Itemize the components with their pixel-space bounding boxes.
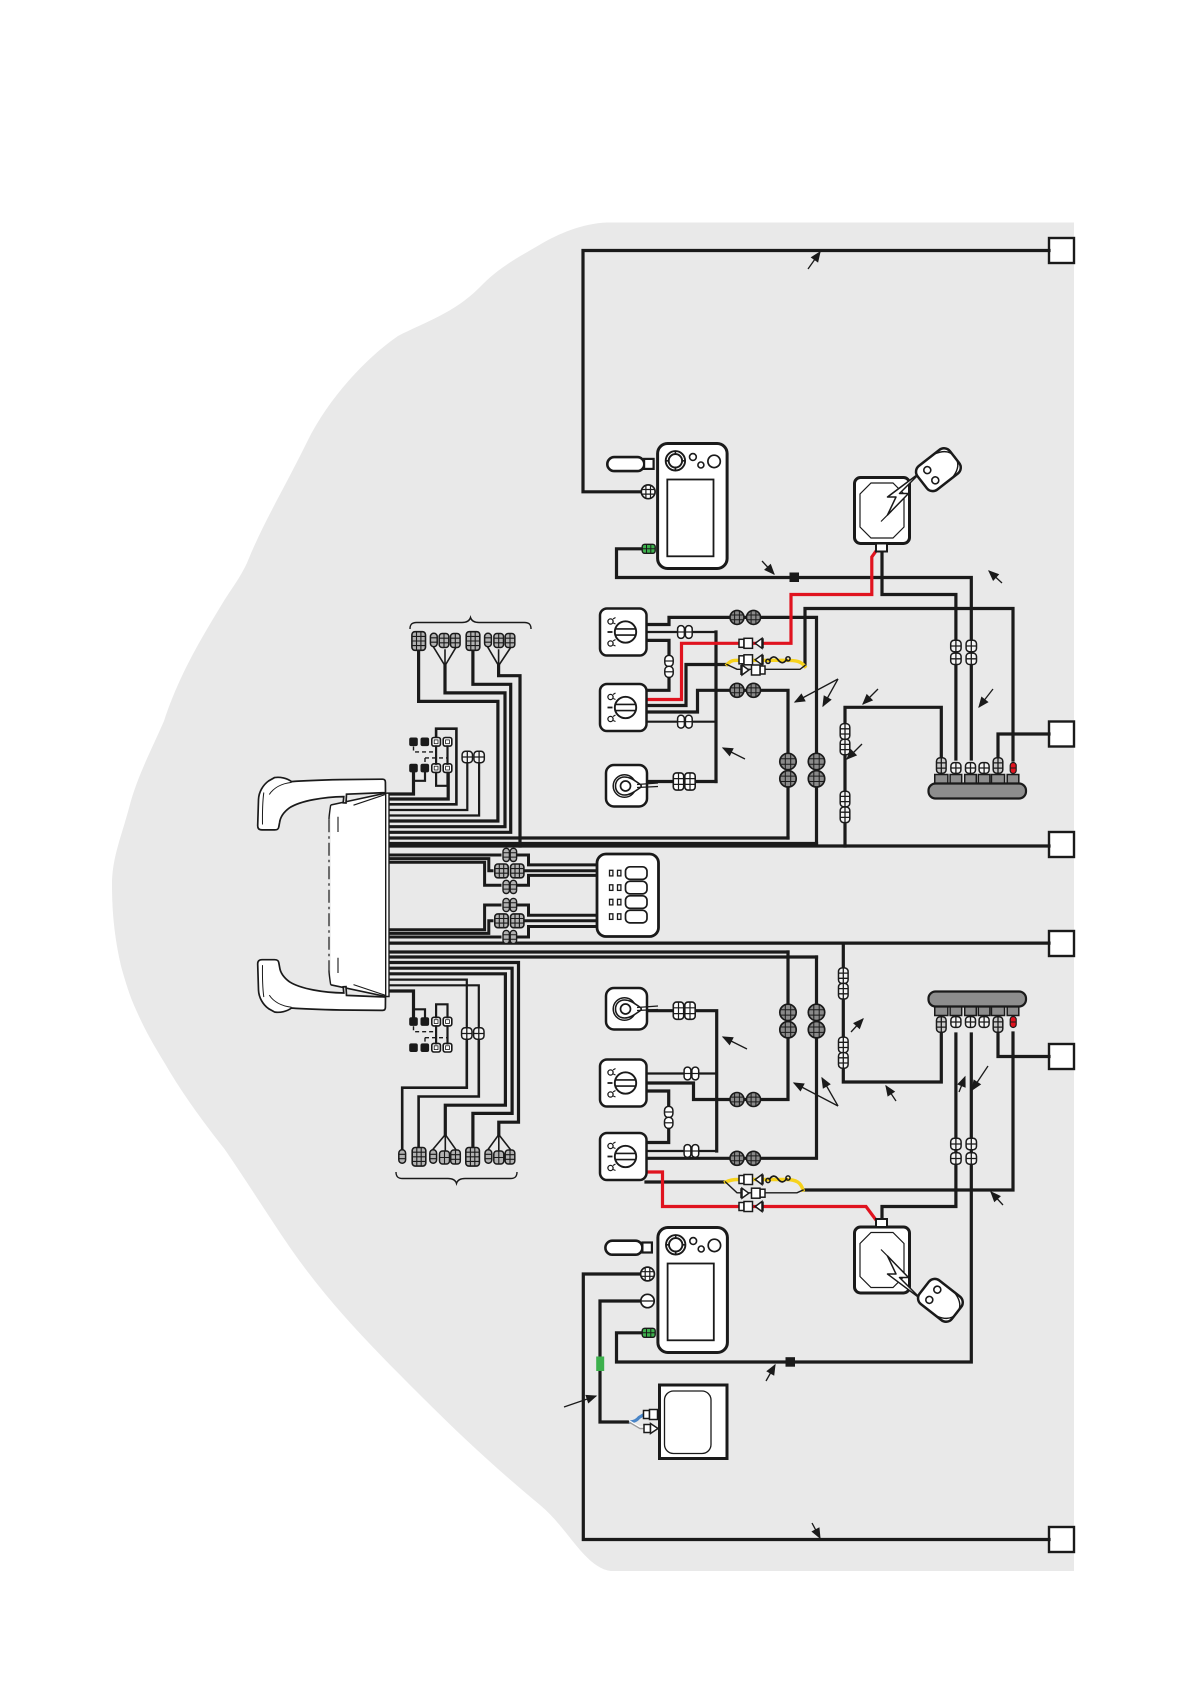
lower yellow fused link with fuse F4 and spare bbox=[726, 1180, 804, 1191]
leader arrow 20 bbox=[886, 1086, 896, 1101]
wire: switch S4 thin tap with pills to kill vertical bbox=[646, 1150, 717, 1152]
callout box 6 (bottom right) bbox=[1049, 1527, 1074, 1552]
trim coupler C1 grid connectors bbox=[495, 864, 508, 878]
leader arrow 6 bbox=[823, 679, 838, 706]
bullet connectors on S2 circuit bbox=[730, 683, 744, 697]
engine line B upper bbox=[389, 842, 817, 845]
fuse F1 (red circuit) bbox=[739, 638, 763, 648]
pill connectors on S4 thin wire bbox=[684, 1145, 691, 1158]
rocker switch 3 bbox=[626, 896, 648, 909]
leader arrow 5 bbox=[795, 679, 838, 702]
terminal block T2 bbox=[935, 1006, 948, 1016]
red positive wire: switch S4 to battery B2 with fuse F3 bbox=[646, 1172, 878, 1222]
cluster X1 solid frame wires bbox=[436, 747, 447, 786]
callout box 2 bbox=[1049, 722, 1074, 747]
pill connectors on S5-S4 link bbox=[665, 1106, 673, 1117]
callout box 4 bbox=[1049, 931, 1074, 956]
wire: gauge U1 green connector loop to terminal T1 tab3 bbox=[617, 549, 972, 759]
blue connector on sensor lead bbox=[629, 1415, 644, 1423]
ignition key switch S5 bbox=[600, 1060, 647, 1107]
T1 red pill connector bbox=[1010, 763, 1016, 774]
gauge U1 round power connector bbox=[641, 485, 655, 499]
wire: switch S2 to bullet connectors to engine line A bbox=[646, 690, 788, 838]
junction J2 on lower gauge loop bbox=[786, 1357, 796, 1367]
leader arrow 12 bbox=[564, 1396, 596, 1407]
charger plug P1 bbox=[913, 445, 964, 494]
engine line A upper bbox=[389, 836, 789, 839]
rocker switch 2 bbox=[626, 881, 648, 894]
wire: yellow loop junction to terminal T2 tab6 bbox=[803, 1033, 1013, 1190]
wire: battery B1 negative to terminal T1 tab2 bbox=[882, 549, 956, 759]
gauge U2 green network connector bbox=[642, 1328, 655, 1337]
wire: gauge U1 to callout box 1 bbox=[583, 251, 1049, 492]
ignition key switch S4 bbox=[600, 1133, 647, 1180]
engine stop lanyard switch S6 bbox=[606, 988, 647, 1030]
wire: terminal T2 tab1 down-left and up to engine line C bbox=[843, 943, 941, 1082]
battery B2 bbox=[855, 1227, 910, 1293]
leader arrow 11 bbox=[766, 1365, 775, 1381]
wire: kill-switch vertical riser bbox=[714, 632, 717, 782]
engine lower cascade wires to connector bank K2 bbox=[389, 963, 519, 1135]
trim coupler C2 grid connectors bbox=[495, 914, 508, 928]
pill connectors on S1 wire bbox=[678, 626, 685, 639]
wire: switch S5 thin tap to kill vertical bbox=[646, 1072, 717, 1074]
leader arrow 15 bbox=[822, 1078, 838, 1106]
bullet connectors on S1 circuit bbox=[730, 610, 744, 624]
bank K2 fan wires bbox=[433, 1135, 455, 1150]
trim coupler C2 capsule pair top bbox=[503, 898, 509, 911]
kill switch S6 connectors bbox=[673, 1002, 683, 1019]
callout box 5 bbox=[1049, 1044, 1074, 1069]
leader arrow 4 bbox=[723, 748, 745, 759]
hull outline (boat viewed from above) bbox=[112, 223, 1074, 1572]
fuse F3 (red circuit) bbox=[739, 1202, 763, 1212]
leader arrow 9 bbox=[847, 744, 862, 759]
red positive wire: battery B1 to switch S2 with fuse F1 bbox=[647, 549, 878, 700]
engine/transom unit body bbox=[329, 793, 389, 996]
wire: switch S1 circuit through bullet connectors to engine line B bbox=[646, 617, 817, 843]
bank K2 small grid bbox=[440, 1151, 450, 1164]
X2 pair capsule connectors bbox=[462, 1028, 472, 1039]
callout box 3 bbox=[1049, 832, 1074, 857]
T1 tab connectors bbox=[937, 758, 947, 774]
bank K2 medium grid 2 bbox=[505, 1150, 515, 1164]
bank K2 capsule 3 bbox=[485, 1150, 492, 1163]
gauge U1 green network connector bbox=[642, 544, 655, 553]
leader arrow 10 bbox=[812, 1523, 820, 1538]
gauge U2 round power connector bbox=[641, 1267, 655, 1281]
wire: switch S2 to fuse loop junction bbox=[646, 665, 727, 706]
capsule connectors on lower gauge-loop riser bbox=[966, 1138, 976, 1149]
gauge U2 buzzer bbox=[605, 1241, 642, 1255]
wire: engine lower line C to callout box 4 bbox=[389, 941, 1050, 944]
lanyard cord S3 bbox=[637, 783, 658, 788]
battery B1 terminal cover bbox=[876, 544, 887, 552]
engine lower line B bbox=[389, 955, 817, 958]
wire: gauge U2 to callout box 6 (bottom loop) bbox=[583, 1274, 1049, 1540]
pill connectors on S5 thin wire bbox=[684, 1067, 691, 1080]
wire: kill switch S6 lead and vertical bbox=[646, 1011, 717, 1151]
rocker switch 4 bbox=[626, 910, 648, 923]
battery B2 terminal cover bbox=[876, 1219, 887, 1227]
engine wires to trim cluster C1 bbox=[389, 854, 501, 857]
T2 tab connectors bbox=[937, 1017, 947, 1033]
squiggle retainer on yellow link bbox=[766, 657, 790, 664]
trim coupler C1 capsule pair top bbox=[503, 848, 509, 861]
wire: switch S2 thin tap to kill vertical bbox=[646, 721, 715, 723]
leader arrow 19 bbox=[991, 1192, 1003, 1205]
engine wires upper bundle to connector bank and cluster bbox=[389, 772, 414, 794]
gauge U2 selector knob bbox=[666, 1235, 685, 1254]
green inline connector on sensor lead bbox=[596, 1357, 604, 1372]
wire: kill switch S3 lead bbox=[646, 780, 716, 783]
leader arrow 16 bbox=[851, 1019, 863, 1032]
terminal block T1 bbox=[935, 775, 948, 785]
capsule connectors on T2 tab1 drop bbox=[839, 968, 849, 984]
lanyard cord S6 bbox=[637, 1006, 658, 1011]
leader arrow 1 bbox=[808, 252, 820, 269]
leader arrow 18 bbox=[972, 1066, 988, 1090]
leader arrow 8 bbox=[979, 689, 993, 707]
capsule connectors on T1 tab1 riser bbox=[840, 724, 850, 740]
wire: engine line C to callout box 3 bbox=[389, 844, 1050, 847]
cluster X1 dashed links bbox=[414, 747, 448, 764]
bank K1 medium connectors 2 bbox=[494, 634, 504, 648]
lightning bolt (battery B2 charger) bbox=[881, 1250, 927, 1305]
gauge U2 buttons bbox=[690, 1238, 697, 1245]
wire: switch S1 lower contact to switch S2 bbox=[646, 640, 669, 690]
pill connectors on S1-S2 link bbox=[665, 655, 673, 666]
gauge U1 buttons bbox=[690, 454, 697, 461]
wire: gauge U2 green connector loop to terminal T2 tab3 bbox=[617, 1034, 972, 1362]
battery B1 bbox=[855, 478, 910, 544]
white spare connector on sensor lead bbox=[629, 1422, 646, 1429]
engine lower line A bbox=[389, 950, 789, 953]
leader arrow 2 bbox=[762, 561, 774, 574]
wire: gauge U2 speed sensor lead to sensor unit bbox=[600, 1301, 642, 1422]
leader arrow 14 bbox=[794, 1083, 838, 1106]
yellow fused link with fuse F2 and spare fuse holder bbox=[727, 660, 805, 666]
bank K2 small capsule bbox=[399, 1150, 406, 1163]
wire: terminal T1 tab1 up-left and down to engine line C bbox=[845, 707, 941, 846]
leader arrow 3 bbox=[989, 571, 1002, 583]
charger plug P2 bbox=[915, 1276, 966, 1325]
bank K2 small grid 2 bbox=[494, 1151, 504, 1164]
trim coupler wires to bank K2 bbox=[402, 1040, 467, 1150]
T2 red pill connector bbox=[1010, 1017, 1016, 1028]
kill switch S3 connectors bbox=[673, 773, 683, 790]
leader arrow 13 bbox=[723, 1037, 747, 1049]
X1 pair capsule connectors bbox=[462, 751, 472, 762]
trim relay cluster X1 bbox=[409, 738, 418, 747]
gauge U1 selector knob bbox=[666, 451, 685, 470]
leader arrow 7 bbox=[863, 689, 878, 704]
ignition key switch S2 bbox=[600, 684, 647, 731]
engine cascade wires to connector bank K1 bbox=[389, 649, 498, 821]
wire: battery B2 negative to terminal T2 tab2 bbox=[882, 1034, 956, 1222]
bank K1 capsule connector 2 bbox=[485, 633, 492, 646]
connector bank K1 brace bbox=[410, 618, 531, 630]
bullet connectors on S4 circuit bbox=[730, 1151, 744, 1165]
connector bank K2 brace bbox=[396, 1172, 517, 1184]
callout box 1 (top right) bbox=[1049, 238, 1074, 263]
wire: fuse loop right junction up and over to terminal T1 tab6 bbox=[805, 609, 1013, 761]
bank K1 fan wires bbox=[434, 648, 456, 666]
bank K2 capsule 2 bbox=[430, 1150, 437, 1163]
wire: terminal T1 tab5 to callout box 2 bbox=[998, 734, 1049, 760]
wire: switch S1 to pill connectors bbox=[646, 631, 716, 633]
trim coupler C1 capsule pair bottom bbox=[503, 880, 509, 893]
cluster X2 dashed links bbox=[414, 1026, 448, 1043]
bank K1 capsule connector bbox=[430, 633, 437, 646]
wire: switch S5 to bullets to engine lower line A bbox=[646, 952, 788, 1100]
leader arrow 17 bbox=[959, 1077, 965, 1092]
engine stop lanyard switch S3 bbox=[606, 765, 647, 807]
engine wires lower bundle bbox=[389, 936, 501, 939]
bank K2 main coupler 2 bbox=[466, 1148, 480, 1167]
rocker switch 1 bbox=[626, 867, 648, 880]
bank K1 connector: main harness coupler bbox=[412, 632, 426, 651]
wire: terminal T2 tab5 to callout box 5 bbox=[998, 1032, 1049, 1057]
gauge U2 screen bbox=[668, 1264, 714, 1341]
bank K1 second main coupler bbox=[466, 632, 480, 651]
multifunction gauge U2 body bbox=[658, 1228, 728, 1353]
trim relay cluster X2 bbox=[409, 1017, 418, 1026]
gauge U2 round sensor connector bbox=[641, 1294, 654, 1307]
bullet connectors on S5 circuit bbox=[730, 1093, 744, 1107]
trim coupler C2 capsule pair bottom bbox=[503, 930, 509, 943]
cluster X2 solid frame wires bbox=[436, 1004, 447, 1043]
ignition key switch S1 bbox=[600, 609, 647, 656]
lightning bolt (battery B1 charger) bbox=[881, 467, 927, 522]
bank K1 medium connectors bbox=[439, 634, 449, 648]
capsule connectors on battery B2 riser bbox=[951, 1138, 961, 1149]
wire: switch S4 circuit through bullets to engine lower line B bbox=[646, 957, 817, 1158]
wire: switch S4 to lower fuse loop junction bbox=[646, 1180, 726, 1183]
pill connectors on S2 thin wire bbox=[678, 715, 685, 728]
gauge U1 buzzer bbox=[607, 457, 644, 471]
trim switch panel bbox=[597, 854, 659, 937]
engine steering arm top bbox=[258, 777, 386, 830]
capsule connectors on battery B1 drop bbox=[951, 640, 961, 651]
bank K2 main coupler bbox=[412, 1148, 426, 1167]
capsule connectors on gauge-loop drop bbox=[966, 640, 976, 651]
engine steering arm bottom bbox=[258, 960, 386, 1013]
multifunction gauge U1 body bbox=[658, 444, 728, 569]
wire: switch S4 upper contact to switch S5 bbox=[646, 1091, 669, 1143]
gauge U1 screen bbox=[667, 480, 713, 557]
speed sensor unit bbox=[660, 1385, 728, 1459]
bank K2 medium grid bbox=[451, 1150, 461, 1164]
junction J1 on gauge loop bbox=[790, 573, 800, 583]
